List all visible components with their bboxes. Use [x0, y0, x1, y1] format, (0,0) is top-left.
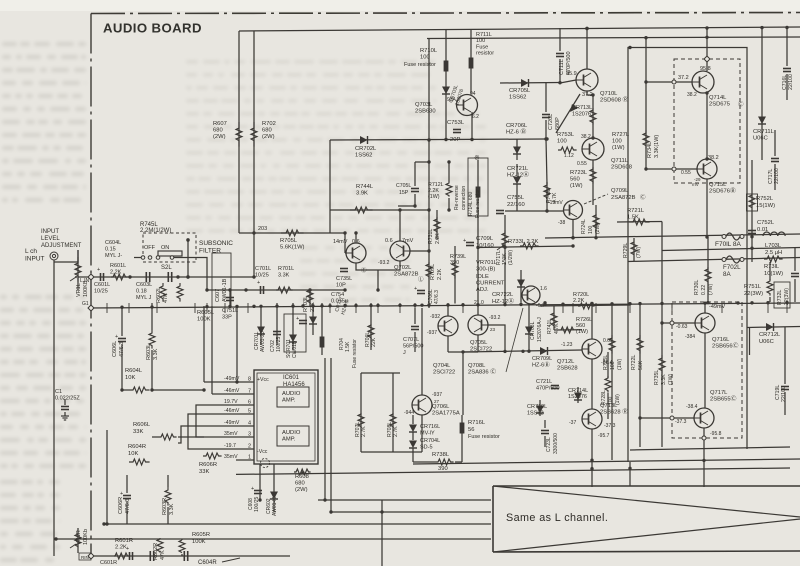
svg-text:100Kb: 100Kb [83, 529, 89, 545]
svg-text:AUDIO: AUDIO [282, 430, 301, 436]
wire x592 to panel [591, 460, 593, 487]
supply column CR701L [260, 308, 262, 345]
svg-text:8: 8 [248, 377, 251, 383]
resistor R734L [645, 38, 647, 169]
resistor R731L [436, 210, 438, 240]
svg-text:CR716L: CR716L [420, 424, 440, 430]
svg-text:INPUT: INPUT [41, 229, 59, 235]
wire vert x330 [329, 140, 331, 233]
svg-text:(1W): (1W) [612, 145, 625, 151]
svg-text:R735L: R735L [654, 370, 660, 385]
svg-text:(2W): (2W) [295, 487, 308, 493]
svg-text:2SD675: 2SD675 [709, 102, 730, 108]
svg-text:C601L: C601L [94, 282, 110, 288]
resistor R743L [177, 283, 183, 302]
svg-text:R608: R608 [295, 474, 309, 480]
svg-text:HZ-12Ⓐ: HZ-12Ⓐ [492, 297, 514, 305]
svg-text:Q704L: Q704L [433, 363, 451, 369]
transistor Q704L [438, 316, 458, 336]
wire Q703 row [446, 138, 545, 141]
svg-text:VR1L: VR1L [76, 283, 82, 297]
svg-text:-49mV: -49mV [709, 304, 726, 310]
svg-text:U06C: U06C [759, 339, 774, 345]
svg-text:23: 23 [490, 327, 496, 332]
wire output box bottom [630, 447, 790, 450]
svg-text:22/100: 22/100 [788, 74, 794, 90]
wire x662 upper [661, 222, 663, 304]
transistor Q701L [346, 243, 366, 263]
diode CR709L [540, 347, 548, 355]
junction dots misc [252, 275, 255, 278]
fuse F701L [722, 235, 726, 239]
wire pair emitters [356, 261, 400, 270]
transistor Q708L driver [522, 286, 540, 304]
svg-text:+: + [463, 238, 466, 244]
transistor Q703L [457, 95, 478, 116]
svg-text:560: 560 [570, 177, 580, 183]
svg-text:(1W): (1W) [668, 373, 674, 385]
svg-text:100K: 100K [197, 317, 211, 323]
svg-text:-37: -37 [569, 420, 576, 426]
wire R703L [309, 290, 311, 306]
svg-text:Fuse resistor: Fuse resistor [475, 189, 481, 218]
resistor R707L [360, 373, 362, 452]
capacitor C707L [411, 326, 419, 328]
svg-text:1SS62: 1SS62 [509, 95, 526, 101]
wire Q709 emitter [572, 220, 574, 238]
capacitor C606L [118, 338, 126, 340]
resistor R721L [617, 221, 662, 224]
svg-text:HZ-12Ⓐ: HZ-12Ⓐ [507, 171, 529, 179]
svg-text:Fuse resistor: Fuse resistor [404, 62, 436, 68]
svg-text:0.22: 0.22 [701, 285, 707, 295]
svg-text:2SB656Ⓒ: 2SB656Ⓒ [712, 342, 739, 350]
svg-text:33K: 33K [133, 429, 143, 435]
svg-text:ADJ.: ADJ. [476, 287, 489, 293]
diode CR721L [516, 164, 518, 176]
svg-text:56: 56 [468, 427, 474, 433]
wire bottom bus 3 [107, 523, 491, 525]
svg-text:8A: 8A [723, 271, 731, 278]
svg-text:C603L: C603L [136, 282, 152, 288]
svg-text:-384: -384 [685, 334, 695, 340]
fuse F702L [722, 258, 726, 262]
svg-text:Q705L: Q705L [470, 340, 488, 346]
svg-text:-38.4: -38.4 [686, 404, 698, 410]
svg-text:680P: 680P [555, 117, 561, 130]
capacitor C701L [260, 286, 262, 294]
capacitor C608 [259, 464, 261, 500]
svg-text:Ⓔ: Ⓔ [361, 266, 367, 274]
svg-text:C753L: C753L [447, 120, 465, 126]
svg-text:R711L: R711L [476, 32, 492, 38]
transistor Q714L [692, 71, 714, 93]
wire driver col [591, 359, 593, 409]
svg-text:7: 7 [248, 389, 251, 395]
wire F702L rail [628, 258, 800, 262]
resistor R728L [607, 352, 609, 378]
svg-text:Q708L: Q708L [468, 363, 486, 369]
wire x750 drop [749, 328, 751, 356]
svg-text:Ⓛ: Ⓛ [418, 275, 424, 283]
transistor Q709L [564, 201, 583, 220]
svg-text:Q715L: Q715L [709, 182, 727, 188]
wire CR712L row [747, 327, 800, 328]
wire x704 to panel [703, 460, 705, 487]
svg-text:+: + [257, 280, 260, 286]
capacitor C752L [748, 230, 756, 232]
svg-text:C720L: C720L [548, 114, 554, 130]
svg-text:300-(B): 300-(B) [476, 267, 495, 273]
fuse resistor R714L [477, 160, 479, 304]
audio amp 1 [277, 387, 309, 407]
resistor R701L [276, 287, 293, 293]
resistor R706L [370, 303, 372, 350]
capacitor C603L [145, 272, 147, 282]
junction dots rows [128, 275, 131, 278]
svg-text:C601R: C601R [100, 560, 117, 566]
board border dash-dot left [90, 14, 92, 557]
svg-text:U06C: U06C [753, 136, 768, 142]
svg-text:-93.2: -93.2 [489, 315, 501, 321]
svg-text:R603R: R603R [162, 498, 168, 515]
svg-text:R721L: R721L [627, 208, 645, 214]
diode CR717 [312, 303, 314, 335]
resistor R735L [661, 323, 663, 447]
capacitor C706L [417, 290, 425, 292]
diode CR713L diagonal [556, 94, 580, 133]
audio amp 2 [277, 426, 309, 446]
svg-text:-37.3: -37.3 [604, 423, 616, 429]
wire input drop [53, 260, 55, 556]
capacitor C601L [100, 273, 102, 281]
svg-text:CR711L: CR711L [753, 129, 775, 135]
wire Q702 base to R709L col [410, 250, 429, 252]
svg-text:R605L: R605L [197, 310, 215, 316]
svg-text:390: 390 [450, 260, 459, 266]
svg-text:(7W): (7W) [636, 246, 642, 258]
svg-text:ADJUSTMENT: ADJUSTMENT [41, 243, 82, 249]
svg-text:2SA872B: 2SA872B [394, 272, 419, 278]
svg-text:56K: 56K [638, 360, 644, 370]
terminal G1 [88, 305, 94, 311]
pot VR701L [504, 262, 506, 303]
wire bottom bus 2 [330, 511, 491, 513]
IC601 box [254, 370, 318, 464]
resistor R722L 56K [639, 303, 641, 447]
resistor R602L [160, 283, 166, 302]
svg-text:IDLE: IDLE [476, 274, 489, 280]
svg-text:R723L: R723L [570, 170, 588, 176]
resistor R720L [540, 305, 630, 306]
svg-text:Q711L: Q711L [611, 158, 629, 164]
diode CR712L [766, 323, 774, 331]
svg-text:10/25: 10/25 [94, 288, 108, 294]
diode CR705L [500, 82, 560, 85]
svg-text:CR709L: CR709L [532, 356, 552, 362]
svg-text:CR713L: CR713L [572, 105, 592, 111]
svg-text:R733L 2.2K: R733L 2.2K [508, 239, 539, 245]
svg-text:10(1W): 10(1W) [764, 271, 783, 277]
svg-text:4: 4 [248, 421, 251, 427]
wire R702 drop [253, 31, 255, 278]
wire CR702L row [330, 139, 446, 142]
wire R604L row [151, 389, 204, 391]
svg-text:1.12: 1.12 [564, 153, 574, 159]
svg-text:R738L: R738L [432, 452, 450, 458]
svg-text:R730L: R730L [694, 280, 700, 295]
svg-text:15P: 15P [399, 190, 409, 196]
svg-text:33K: 33K [199, 469, 209, 475]
wire lower bus y473 [236, 468, 790, 474]
svg-text:0.65: 0.65 [603, 338, 613, 344]
svg-text:Fuse resistor: Fuse resistor [352, 339, 358, 368]
wire supply col down B [330, 358, 332, 512]
svg-text:10K: 10K [128, 451, 138, 457]
svg-text:MYL J-: MYL J- [105, 253, 122, 259]
junction dots ground rail [120, 306, 123, 309]
svg-text:35mV: 35mV [224, 454, 238, 460]
bleed-through text (decorative) [0, 42, 486, 562]
svg-text:CR704L: CR704L [420, 438, 440, 444]
svg-text:R732L: R732L [777, 290, 783, 305]
svg-text:Q712L: Q712L [557, 359, 575, 365]
svg-text:2SB628: 2SB628 [557, 366, 578, 372]
svg-text:(1W): (1W) [576, 329, 588, 335]
svg-text:VR1R: VR1R [76, 530, 82, 545]
resistor R751L [767, 279, 773, 296]
svg-text:4.7K: 4.7K [554, 323, 560, 334]
transistor Q705L [468, 315, 488, 335]
svg-text:INPUT: INPUT [25, 255, 45, 262]
svg-text:2SB655Ⓒ: 2SB655Ⓒ [710, 395, 737, 403]
svg-text:Fuse resistor: Fuse resistor [468, 434, 500, 440]
svg-text:10/25: 10/25 [255, 272, 269, 278]
node diamond on border [78, 276, 96, 278]
wire second top rail [427, 37, 800, 39]
svg-text:-1.23: -1.23 [561, 342, 573, 348]
capacitor C751L [226, 297, 234, 299]
capacitor C719L [784, 327, 786, 384]
svg-text:mV: mV [692, 182, 699, 187]
svg-text:3: 3 [248, 432, 251, 438]
svg-text:R604R: R604R [128, 444, 146, 450]
svg-text:-46mV: -46mV [224, 408, 240, 414]
svg-text:※: ※ [474, 155, 480, 162]
svg-text:2: 2 [248, 444, 251, 450]
svg-text:C709L: C709L [476, 236, 494, 242]
svg-text:(1W): (1W) [570, 183, 583, 189]
svg-text:-932: -932 [430, 314, 440, 320]
terminal L ch INPUT [50, 252, 58, 260]
fuse resistor R710L [444, 61, 449, 72]
svg-text:(1W): (1W) [615, 394, 621, 405]
svg-text:SUBSONIC: SUBSONIC [199, 240, 233, 247]
svg-text:L703L: L703L [765, 243, 782, 249]
fuse resistor R716L [461, 415, 463, 440]
resistor R705L [281, 230, 304, 236]
svg-text:Q714L: Q714L [709, 95, 727, 101]
wire driver bottom row [361, 451, 422, 453]
wire vert x446 [445, 30, 447, 140]
pot VR1R [75, 533, 81, 548]
svg-text:2.7K: 2.7K [361, 426, 367, 437]
transistor Q713L [582, 409, 602, 429]
svg-text:Q703L: Q703L [415, 102, 433, 108]
svg-text:1S2076A-J: 1S2076A-J [537, 317, 543, 342]
wire switch drop [187, 240, 189, 277]
svg-text:(1W): (1W) [428, 194, 440, 200]
svg-text:C705L: C705L [396, 183, 411, 189]
svg-text:R741L: R741L [547, 319, 553, 334]
capacitor C753L [453, 129, 461, 131]
svg-text:R602L: R602L [156, 287, 162, 303]
svg-text:Re-reverse: Re-reverse [454, 185, 460, 210]
svg-text:100K: 100K [192, 539, 206, 545]
NC pin dashed circle [261, 459, 270, 468]
wire q714 emitter [706, 93, 708, 159]
resistor R73lL [764, 256, 783, 262]
svg-text:IC601: IC601 [283, 375, 300, 381]
svg-text:2.7K: 2.7K [393, 426, 399, 437]
wire input row [96, 276, 254, 278]
svg-text:2SD676Ⓑ: 2SD676Ⓑ [709, 187, 736, 195]
resistor R740L [546, 182, 548, 211]
label Q709L [584, 194, 608, 204]
svg-text:+: + [97, 267, 100, 273]
wire vert x560 [559, 28, 561, 51]
svg-text:R716L: R716L [468, 420, 486, 426]
capacitor C601R [129, 552, 131, 560]
fuse resistor R704 [321, 303, 323, 355]
svg-text:-0.63: -0.63 [676, 324, 688, 330]
svg-text:R753L: R753L [557, 132, 575, 138]
wire mid right rail [662, 248, 800, 251]
svg-text:R744L: R744L [356, 184, 374, 190]
resistor R727L [592, 95, 594, 138]
supply column SCR701 [284, 314, 306, 352]
resistor R753L [558, 147, 577, 153]
diode CR714L [577, 387, 579, 403]
svg-text:56P/500: 56P/500 [403, 344, 424, 350]
svg-text:R605R: R605R [192, 532, 210, 538]
svg-text:Ⓒ: Ⓒ [738, 100, 744, 108]
svg-text:Ⓒ: Ⓒ [640, 193, 646, 201]
resistor R606R [203, 453, 222, 459]
svg-text:C604L: C604L [105, 240, 121, 246]
svg-text:100: 100 [588, 225, 594, 234]
svg-text:6.2: 6.2 [472, 114, 479, 120]
resistor R752L [751, 160, 753, 262]
svg-text:22/160: 22/160 [507, 202, 525, 208]
capacitor C716L [783, 68, 791, 70]
diode CR708L [528, 304, 530, 351]
svg-text:Fuse: Fuse [476, 44, 488, 50]
resistor R604R [129, 459, 150, 465]
transistor Q715L [697, 159, 717, 179]
svg-text:C707L: C707L [403, 337, 419, 343]
svg-text:10P: 10P [336, 282, 346, 288]
svg-text:CR706L: CR706L [506, 123, 528, 129]
svg-text:2.2K: 2.2K [435, 233, 441, 244]
svg-text:Q717L: Q717L [710, 390, 728, 396]
svg-text:CW01B: CW01B [292, 340, 298, 358]
coil L703L [763, 232, 785, 236]
capacitor C754 elco [299, 320, 307, 322]
svg-text:100/25: 100/25 [276, 336, 282, 352]
svg-text:0.15: 0.15 [105, 247, 116, 253]
svg-text:680: 680 [295, 481, 305, 487]
resistor R601L [111, 274, 128, 280]
wire stubs across ground rail [106, 303, 108, 313]
svg-text:10/160: 10/160 [476, 243, 494, 249]
svg-text:CR705L: CR705L [509, 88, 531, 94]
resistor R744L [350, 207, 373, 213]
svg-text:1S2076: 1S2076 [572, 111, 591, 117]
wire drivers [412, 415, 414, 424]
resistor R606L [158, 434, 177, 440]
svg-text:R751L: R751L [744, 284, 762, 290]
svg-text:R607: R607 [213, 121, 227, 127]
svg-text:VR701L: VR701L [476, 260, 498, 266]
resistor R725L [611, 303, 613, 460]
svg-text:R702: R702 [262, 121, 276, 127]
transistor Q706L [412, 395, 432, 415]
svg-text:C701L: C701L [255, 266, 271, 272]
svg-text:1.5K: 1.5K [627, 215, 639, 221]
wire C751L [229, 290, 231, 308]
svg-text:1S2076: 1S2076 [568, 394, 587, 400]
resistor R732L [774, 282, 790, 308]
svg-text:203: 203 [258, 226, 267, 232]
svg-text:C606R: C606R [118, 497, 124, 514]
transistor Q717L [694, 408, 714, 428]
svg-text:L.IN: L.IN [80, 278, 90, 284]
svg-text:1: 1 [248, 455, 251, 461]
pot VR1L [77, 250, 79, 290]
svg-text:0.55: 0.55 [681, 170, 691, 176]
svg-text:0.022/25Z: 0.022/25Z [55, 396, 80, 402]
svg-text:Q709L: Q709L [611, 188, 629, 194]
svg-text:33P: 33P [222, 314, 232, 320]
svg-text:R710L: R710L [420, 48, 438, 54]
svg-text:6: 6 [248, 400, 251, 406]
svg-text:1SS62: 1SS62 [527, 411, 544, 417]
capacitor C607 AW01-1B [212, 253, 231, 307]
svg-text:R728L: R728L [601, 390, 607, 405]
diode CR704L [409, 441, 417, 449]
svg-text:2SCl722: 2SCl722 [433, 370, 455, 376]
svg-text:AUDIO: AUDIO [282, 391, 301, 397]
capacitor C755L [496, 210, 504, 212]
resistor R703L [307, 289, 313, 304]
wire supply col down A [324, 358, 326, 500]
svg-text:HZ-6Ⓑ: HZ-6Ⓑ [532, 361, 550, 369]
svg-text:100: 100 [557, 139, 567, 145]
svg-text:AW01-lB: AW01-lB [272, 496, 278, 516]
wire base row y351 [462, 350, 582, 352]
svg-text:R752L: R752L [756, 196, 774, 202]
svg-text:22K: 22K [371, 337, 377, 347]
svg-text:R601L: R601L [110, 263, 126, 269]
IC pins [236, 381, 254, 383]
svg-text:MV-lY: MV-lY [420, 431, 435, 437]
transistor Q716L [695, 313, 715, 333]
capacitor C606R [123, 495, 131, 497]
svg-text:680: 680 [213, 128, 223, 134]
capacitor C602R [183, 551, 185, 561]
svg-text:-13mV: -13mV [548, 200, 563, 206]
